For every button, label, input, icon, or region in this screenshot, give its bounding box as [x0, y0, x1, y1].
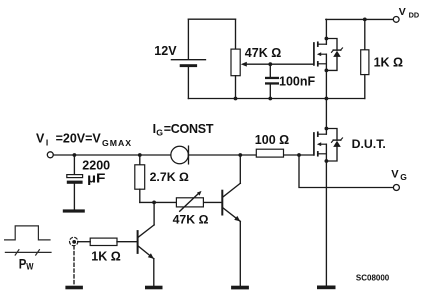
svg-text:V: V: [391, 169, 399, 181]
svg-text:100nF: 100nF: [279, 74, 315, 88]
label VDD: [399, 6, 419, 20]
svg-text:SC08000: SC08000: [356, 273, 390, 282]
wire M1 source to M2 drain: [325, 70, 327, 134]
wire mid rail: [188, 98, 364, 100]
wire 1K to Q1 base: [117, 241, 137, 243]
node gate/VG: [297, 153, 301, 157]
wire dashed to ground: [73, 246, 75, 286]
svg-text:G: G: [156, 127, 163, 137]
svg-text:µF: µF: [87, 170, 106, 185]
resistor R1 1K (top right): [361, 19, 369, 98]
svg-text:I: I: [46, 138, 48, 148]
resistor R2 2.7K: [135, 155, 145, 202]
terminal VDD: [393, 17, 399, 23]
svg-text:P: P: [19, 256, 27, 272]
svg-text:GMAX: GMAX: [102, 138, 132, 148]
wire 2.7K bottom to Q2 base: [140, 201, 222, 203]
svg-text:47K Ω: 47K Ω: [245, 46, 281, 60]
node Q1 collector: [152, 201, 156, 205]
resistor R3 100ohm: [256, 149, 283, 157]
wire 100ohm to M2 gate: [284, 154, 313, 156]
resistor R4 1K (left): [90, 238, 117, 245]
capacitor C1 2200uF: [67, 155, 83, 209]
node M1 drain/diode: [325, 37, 329, 41]
svg-text:DD: DD: [409, 10, 420, 19]
label IG=CONST: [153, 122, 214, 137]
svg-text:12V: 12V: [154, 44, 177, 58]
wire wiper to gate M1: [247, 63, 313, 65]
terminal VG: [393, 185, 399, 191]
svg-text:2.7K Ω: 2.7K Ω: [150, 170, 189, 184]
ground Q1: [145, 286, 163, 290]
label PW: [19, 256, 34, 272]
node M2 source/diode: [325, 159, 329, 163]
svg-text:D.U.T.: D.U.T.: [352, 137, 386, 151]
ground C1: [63, 209, 85, 212]
wire current source to 100ohm: [189, 154, 257, 156]
wire input line left: [53, 154, 170, 156]
node VDD junction: [363, 18, 367, 22]
pulse waveform icon: [5, 226, 51, 255]
ground M2 source: [317, 286, 336, 290]
node rail/source column: [325, 97, 329, 101]
probe node dashed circle: [70, 237, 91, 245]
node input/Q2 collector: [238, 153, 242, 157]
svg-text:100 Ω: 100 Ω: [255, 133, 289, 147]
terminal VI: [47, 152, 53, 158]
transistor Q2: [222, 155, 240, 286]
svg-text:1K Ω: 1K Ω: [91, 250, 120, 264]
node M2 drain/diode: [325, 127, 329, 131]
wire VG: [299, 155, 393, 188]
node rail/100nF: [268, 97, 272, 101]
node input/2200uF: [73, 153, 77, 157]
svg-text:V: V: [399, 6, 406, 18]
svg-text:W: W: [26, 261, 34, 272]
variable resistor 47K: [176, 191, 203, 211]
mosfet M1: [314, 19, 327, 70]
ground probe: [65, 286, 83, 290]
label VG: [391, 169, 407, 182]
wire Vdd rail: [326, 18, 393, 20]
mosfet M2 DUT: [314, 132, 327, 161]
svg-text:V: V: [36, 132, 45, 146]
node rail/pot: [234, 97, 238, 101]
diode D2 body: [326, 129, 342, 162]
svg-text:=CONST: =CONST: [164, 122, 214, 136]
capacitor C2 100nF: [265, 64, 279, 98]
wire M2 source to ground: [325, 161, 327, 286]
ground Q2: [231, 286, 249, 290]
svg-text:47K Ω: 47K Ω: [173, 213, 209, 227]
wire pot top: [235, 19, 237, 49]
svg-text:1K Ω: 1K Ω: [374, 56, 403, 70]
node wiper/100nF: [268, 62, 272, 66]
transistor Q1: [138, 202, 155, 285]
node M1 source/diode: [325, 69, 329, 73]
svg-text:G: G: [400, 172, 407, 182]
label 2200uF: [82, 159, 110, 186]
label VI=20V=VGMAX: [36, 132, 132, 149]
node input/2.7K: [138, 153, 142, 157]
potentiometer 47K: [231, 49, 247, 98]
current source IG: [171, 146, 189, 164]
diode D1 body: [326, 39, 342, 71]
wire battery loop top: [188, 18, 235, 20]
battery B1 12V: [171, 19, 205, 98]
svg-text:=20V=V: =20V=V: [56, 132, 102, 146]
